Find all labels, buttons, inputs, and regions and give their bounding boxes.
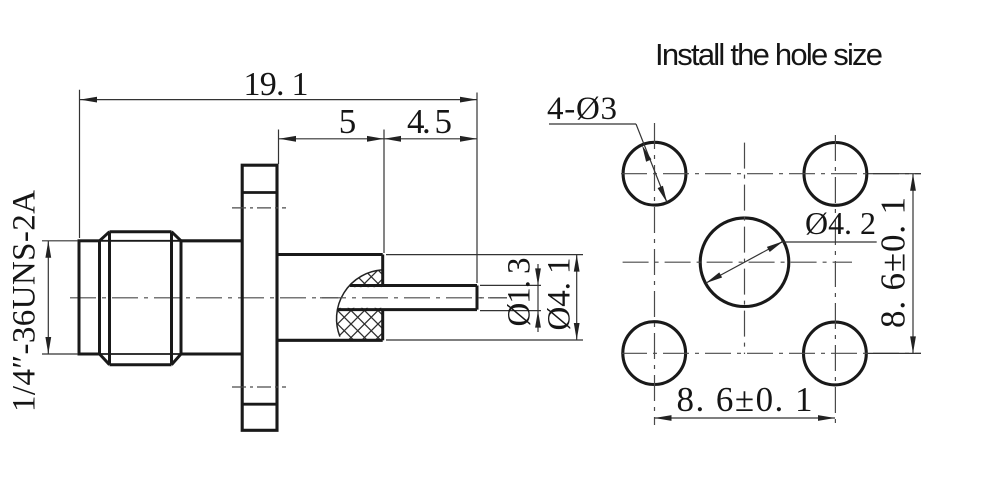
label 4-O3 leader arrow lower — [658, 186, 667, 203]
pin clearance band — [338, 287, 478, 308]
thread dimension extension ticks — [42, 241, 78, 354]
hex nut body — [100, 232, 182, 365]
dimension 5 extension line — [278, 130, 280, 165]
dimension 4.5 arrow right — [460, 136, 477, 142]
bottom spacing arrow left — [655, 415, 672, 421]
right spacing dimension line — [912, 174, 914, 354]
left holes center line — [654, 123, 656, 425]
center hole diameter leader diagonal — [706, 241, 783, 283]
svg-text:8. 6±0. 1: 8. 6±0. 1 — [874, 197, 913, 328]
dimension 4.5 extension line — [383, 130, 385, 254]
ptfe dielectric nose arc — [337, 270, 382, 337]
center hole diameter leader landing — [781, 241, 877, 243]
dimension 19.1 arrow right — [460, 97, 477, 103]
dimension 19.1 arrow left — [80, 97, 97, 103]
center hole horizontal center line — [623, 261, 852, 263]
bottom spacing dimension line — [655, 417, 836, 419]
center hole diameter arrow lower-left — [706, 272, 722, 283]
label 4-O3 leader diagonal — [636, 124, 667, 203]
body diameter arrow top — [574, 255, 580, 272]
body diameter dimension line — [576, 255, 578, 340]
pin diameter dimension line — [537, 264, 539, 332]
right spacing arrow bottom — [910, 336, 916, 353]
mounting hole bottom-left — [623, 322, 686, 385]
svg-text:4-Ø3: 4-Ø3 — [547, 91, 617, 127]
bottom holes center line — [621, 352, 921, 354]
hex nut tangency lines — [100, 241, 182, 354]
thread dimension arrow bottom — [45, 337, 51, 354]
label 4-O3 leader arrow upper — [642, 145, 651, 162]
pin diameter arrow top — [535, 268, 541, 285]
flange hole edge line bottom — [242, 403, 277, 406]
svg-text:Ø4. 1: Ø4. 1 — [542, 258, 578, 331]
right spacing extension top — [868, 173, 921, 175]
center hole vertical center line — [744, 143, 746, 354]
mounting hole top-right — [804, 143, 867, 206]
right spacing extension bottom — [868, 352, 921, 354]
right spacing arrow top — [910, 174, 916, 191]
svg-text:Ø4. 2: Ø4. 2 — [805, 205, 876, 241]
label 4-O3 leader underline — [549, 123, 636, 125]
center hole diameter arrow upper-right — [767, 241, 783, 252]
rear body right face upper — [381, 255, 384, 286]
dimension 5 and 4.5 line — [279, 138, 477, 140]
pin diameter arrow bottom — [535, 311, 541, 328]
dimension 19.1 extension line left — [79, 90, 81, 238]
flange hole center line bottom — [232, 386, 286, 388]
mounting hole bottom-right — [804, 322, 867, 385]
cylinder between hex and flange — [181, 241, 243, 354]
dimension 19.1 line — [80, 99, 477, 101]
dimension 4.5 arrow left — [384, 136, 401, 142]
svg-text:19. 1: 19. 1 — [244, 66, 309, 103]
pin axis over dielectric — [320, 297, 507, 299]
svg-text:Ø1. 3: Ø1. 3 — [502, 258, 538, 327]
svg-text:8. 6±0. 1: 8. 6±0. 1 — [677, 380, 813, 419]
dimension 5 arrow left — [279, 136, 296, 142]
svg-text:1/4″-36UNS-2A: 1/4″-36UNS-2A — [7, 190, 43, 412]
dimension 5 arrow right — [367, 136, 384, 142]
dimension 19.1 extension line right — [476, 93, 478, 284]
body diameter arrow bottom — [574, 323, 580, 340]
center pin contact — [338, 286, 478, 310]
thread cylinder front section — [79, 241, 100, 354]
top holes center line — [621, 173, 921, 175]
pin diameter extension lines — [480, 285, 541, 310]
rear body right face lower — [381, 310, 384, 341]
flange hole edge line top — [242, 191, 277, 194]
svg-text:4. 5: 4. 5 — [407, 102, 452, 141]
thread dimension line — [47, 241, 49, 354]
center hole — [700, 218, 789, 307]
flange plate — [242, 165, 277, 430]
ptfe dielectric hatch fill — [337, 270, 382, 339]
rear body cylinder — [277, 255, 383, 341]
thread dimension arrow top — [45, 241, 51, 258]
center axis of connector — [70, 297, 507, 299]
svg-text:Install the hole size: Install the hole size — [655, 37, 883, 72]
mounting hole top-left — [623, 142, 686, 205]
right holes center line — [834, 135, 836, 425]
flange hole center line top — [232, 207, 286, 209]
svg-text:5: 5 — [339, 102, 357, 141]
hex nut rear face — [180, 241, 183, 354]
body diameter extension lines — [386, 255, 583, 340]
bottom spacing arrow right — [818, 415, 835, 421]
